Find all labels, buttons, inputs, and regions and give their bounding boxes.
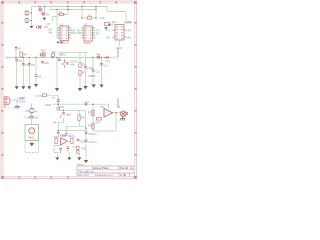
IC U3 label: [112, 20, 116, 24]
svg-text:U4B: U4B: [61, 134, 67, 138]
svg-text:C22: C22: [44, 61, 49, 65]
svg-text:RX: RX: [96, 31, 100, 35]
title block text file: [79, 171, 95, 174]
crystal X2 inside: [28, 128, 35, 140]
wires lower amp: [54, 141, 76, 152]
svg-text:R17: R17: [95, 120, 101, 124]
wire vertical x37: [35, 58, 37, 85]
label blue x90: [88, 74, 96, 78]
wire vertical to GND row2: [22, 58, 24, 87]
wire osc vertical: [31, 104, 33, 109]
IC U1 value text: [59, 42, 69, 45]
svg-text:OUT: OUT: [113, 56, 119, 60]
chassis ground GND20: [120, 117, 125, 121]
ground GND6: [15, 86, 19, 89]
svg-text:C3: C3: [18, 59, 22, 63]
audio jack J1: [4, 97, 10, 109]
capacitor C16: [57, 132, 65, 137]
wire R20 to C15: [47, 95, 59, 100]
wire vertical to GND row3: [28, 58, 30, 87]
svg-text:A0: A0: [128, 29, 132, 33]
ground GND21: [84, 160, 88, 163]
capacitor C10: [84, 66, 93, 70]
transistor Q2: [40, 48, 46, 57]
IC U2 right net labels: [96, 29, 100, 36]
capacitor C4 on row2: [22, 63, 29, 67]
ground GND8: [27, 86, 31, 89]
svg-text:R12: R12: [70, 135, 76, 139]
ground GND3: [56, 42, 62, 44]
IC U1 left pins: [57, 28, 60, 38]
resistor R9: [78, 115, 85, 120]
capacitor C6: [35, 74, 42, 78]
ground GND4: [104, 27, 107, 29]
ground GND5: [108, 24, 111, 26]
svg-text:5V: 5V: [18, 46, 22, 50]
IC U2 left pins: [81, 28, 84, 38]
svg-text:C6: C6: [38, 74, 42, 78]
svg-text:RX: RX: [106, 36, 110, 40]
capacitor C20: [66, 147, 69, 151]
ground GND18: [67, 152, 71, 160]
svg-text:J2: J2: [117, 105, 120, 109]
resistor R13 R14 stack: [77, 146, 88, 153]
svg-text:AIN2: AIN2: [45, 103, 52, 107]
ground GND16: [30, 141, 35, 146]
resistor R19: [85, 140, 97, 144]
capacitor C11 on x99: [100, 63, 108, 67]
junction dots right amp: [92, 104, 116, 114]
title block text title: [92, 167, 110, 170]
IC U3 left pins with labels: [106, 29, 115, 40]
diode D2 on rail: [97, 52, 101, 59]
wire bottom rail: [58, 128, 86, 131]
resistor R5: [51, 50, 55, 57]
IC U1 body: [58, 22, 70, 40]
resistor R4: [20, 52, 27, 57]
wire vertical x93: [92, 58, 94, 85]
wire vertical to GND row1: [16, 58, 18, 87]
junction dot amp2: [58, 104, 65, 112]
wire vertical x99: [101, 58, 103, 85]
svg-text:C18: C18: [80, 139, 86, 143]
svg-text:DM: DM: [72, 31, 77, 35]
svg-text:R21: R21: [60, 106, 65, 109]
ground GND9: [34, 84, 38, 87]
svg-text:3V3: 3V3: [127, 20, 132, 24]
power flag PWR02: [15, 46, 21, 57]
op-amp U4B: [61, 134, 68, 145]
net label green OUT2: [36, 94, 44, 98]
IC U3 right pins with labels: [124, 29, 131, 40]
ground GND19: [77, 153, 81, 160]
capacitor C13 below rail right: [105, 56, 110, 63]
capacitor C19: [59, 149, 62, 153]
svg-text:R16: R16: [88, 124, 94, 128]
resistor R21 inline: [57, 106, 65, 110]
resistor R20 inline: [43, 94, 47, 97]
ground GND2: [42, 18, 46, 20]
svg-text:MIC: MIC: [41, 48, 46, 52]
svg-text:KiCad E.D.A.: KiCad E.D.A.: [95, 174, 109, 177]
svg-text:C8a: C8a: [66, 112, 71, 116]
resistor R12: [70, 135, 76, 144]
capacitor C3: [15, 59, 22, 63]
junction bottom rail: [58, 130, 67, 131]
svg-text:4.0.7: 4.0.7: [109, 175, 115, 177]
junction dots C1 C2: [31, 12, 32, 21]
svg-text:Size: A4: Size: A4: [120, 167, 129, 170]
wire x57 to ground: [56, 58, 58, 89]
chassis ground GND15: [14, 106, 19, 109]
svg-text:CH340: CH340: [83, 42, 91, 45]
sheet border outer frame: [1, 1, 137, 179]
svg-text:FB: FB: [53, 120, 57, 124]
border tick marks left/right/bottom: [1, 22, 136, 178]
svg-text:U3: U3: [112, 20, 116, 24]
ground GND17: [55, 154, 59, 160]
ground GND10: [55, 88, 59, 91]
label VCC top right: [100, 16, 105, 20]
svg-text:10n: 10n: [34, 117, 39, 120]
wire second top rail: [50, 7, 97, 39]
wire D2b to ground: [43, 16, 45, 18]
shield box solid: [25, 125, 39, 141]
capacitor C9: [61, 59, 69, 67]
crystal Y1: [105, 22, 114, 26]
net labels D+ D- between ICs: [72, 28, 82, 35]
svg-text:+5V: +5V: [100, 16, 105, 20]
svg-text:R5: R5: [52, 50, 56, 54]
wire amp2 top: [53, 104, 109, 128]
shield box dashed: [25, 141, 39, 153]
svg-text:R9: R9: [81, 116, 85, 120]
label OSC blue: [19, 96, 26, 100]
svg-text:C14: C14: [25, 116, 30, 120]
resistor R7 chain: [79, 70, 86, 75]
op-amp U5: [100, 105, 112, 117]
svg-text:AIN: AIN: [70, 62, 75, 66]
IC U2 body: [82, 22, 94, 41]
power stub top right: [117, 99, 119, 107]
wire bias chain vertical: [85, 128, 87, 160]
svg-text:C25: C25: [25, 109, 30, 113]
resistor R18: [85, 132, 97, 136]
label FB blue: [53, 120, 57, 124]
net labels at J1: [18, 96, 26, 103]
wire C25 to C14: [31, 113, 33, 116]
wire C1 C2 to ground: [29, 7, 32, 25]
svg-text:C13: C13: [105, 59, 110, 63]
capacitor C1: [25, 11, 29, 15]
svg-text:C9: C9: [61, 62, 65, 66]
svg-text:C11: C11: [103, 63, 108, 67]
resistor R17: [95, 118, 101, 125]
capacitor C5 on row3: [28, 63, 35, 67]
IC U1 right pins: [69, 28, 72, 38]
svg-text:R2: R2: [46, 13, 50, 17]
net label below U3: [116, 46, 122, 50]
capacitor C18: [77, 139, 86, 143]
junction dots mid rail: [15, 57, 105, 58]
ground GND1: [30, 25, 34, 29]
label blue above C15: [52, 96, 55, 100]
wire x85.5: [85, 52, 87, 66]
wire upper mid rail: [58, 51, 88, 53]
resistor R15: [88, 110, 94, 116]
junction bias chain: [85, 128, 86, 129]
svg-text:XTAL: XTAL: [19, 96, 26, 100]
power stub mid right: [117, 49, 119, 57]
net label NC stub: [47, 22, 51, 26]
svg-text:Id: 1/1: Id: 1/1: [120, 175, 127, 177]
net label green 2 lines: [70, 59, 78, 66]
sheet label above title block: [77, 164, 85, 167]
svg-text:MIC1: MIC1: [28, 136, 35, 140]
IC U2 value text: [83, 42, 91, 45]
polarized capacitor C25: [25, 108, 38, 113]
svg-text:R4: R4: [23, 52, 27, 56]
svg-text:VM: VM: [48, 30, 53, 34]
svg-text:OUT2: OUT2: [36, 94, 44, 98]
label mid blue: [60, 52, 66, 56]
ferrite bead FB1: [88, 13, 92, 19]
svg-text:A1: A1: [128, 36, 132, 40]
label net right end: [124, 21, 132, 25]
ground GND12: [83, 86, 87, 89]
svg-text:Date: 2017: Date: 2017: [78, 174, 90, 177]
ground GND14: [99, 85, 103, 88]
wire VBUS top rail: [32, 7, 127, 22]
svg-text:File: audio.sch: File: audio.sch: [79, 171, 95, 174]
svg-text:Soldered Plates: Soldered Plates: [92, 167, 110, 170]
svg-text:C24 1u: C24 1u: [88, 140, 97, 144]
wire R7 to ground: [79, 52, 81, 88]
junction dots top: [44, 6, 97, 19]
svg-text:C23 1u: C23 1u: [88, 132, 97, 136]
svg-text:VREF: VREF: [88, 74, 96, 78]
svg-text:NC: NC: [47, 22, 51, 26]
svg-text:TX: TX: [106, 29, 110, 33]
svg-text:C5: C5: [31, 63, 35, 67]
net labels left of U1: [48, 28, 53, 35]
wire C10 to ground: [85, 68, 87, 86]
capacitor C22 below Q2: [41, 61, 49, 65]
svg-text:C12: C12: [95, 69, 100, 73]
wire R9 loop: [66, 120, 85, 130]
svg-text:R15: R15: [88, 111, 94, 115]
resistor R6 chain: [79, 62, 86, 67]
diode D2b: [41, 12, 49, 17]
ground GND11: [78, 88, 82, 91]
IC U3 top right pin text: [127, 20, 132, 24]
ground GND7: [21, 86, 25, 89]
ground GND13: [92, 85, 96, 88]
wire U3 bottom: [119, 40, 121, 46]
capacitor C7: [59, 53, 63, 57]
diode D1: [38, 5, 42, 12]
border tick marks top: [1, 1, 136, 178]
capacitor C8: [58, 58, 61, 61]
capacitor C2: [25, 18, 29, 22]
capacitor C15 top: [57, 99, 60, 105]
net label OUT green: [113, 56, 119, 60]
wire J1 out: [10, 100, 18, 106]
capacitor C14: [25, 116, 40, 120]
wire main mid rail: [10, 57, 112, 59]
svg-text:VIN: VIN: [5, 55, 10, 59]
svg-text:GNDA: GNDA: [18, 100, 26, 104]
capacitor C21 inline: [84, 100, 89, 106]
feedback loop wires right amp: [93, 104, 121, 131]
wire D1 to R2: [40, 7, 44, 13]
capacitor C12 on x93: [92, 69, 101, 73]
wire C14 down: [31, 118, 33, 125]
label +3V3 rail left: [5, 55, 10, 59]
transistor Q1: [37, 25, 49, 29]
fuse F1: [58, 10, 64, 15]
title block text kicad: [78, 167, 135, 177]
title block frame: [77, 166, 135, 177]
resistor R11: [54, 135, 59, 143]
svg-text:BIAS: BIAS: [60, 52, 66, 56]
capacitor C17 stub: [65, 131, 73, 138]
resistor R16: [88, 123, 94, 129]
IC U2 right pins: [93, 28, 96, 38]
capacitor R8 branch: [61, 112, 71, 117]
audio jack J2: [117, 105, 128, 117]
svg-text:IN: IN: [52, 96, 55, 100]
wire R8 jog to bottom rail: [58, 118, 63, 131]
svg-text:GND: GND: [116, 46, 122, 50]
IC U3 body: [113, 25, 125, 41]
label ADC blue: [45, 103, 52, 107]
svg-text:U5: U5: [100, 105, 104, 109]
